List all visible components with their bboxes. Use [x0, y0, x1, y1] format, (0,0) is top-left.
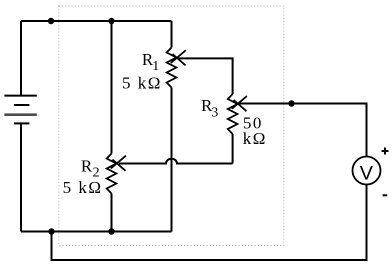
R1 wiper arrow [171, 50, 186, 65]
wire R1 branch top corner [171, 21, 173, 48]
wire R1 wiper to R3 top [178, 58, 233, 94]
svg-text:1: 1 [152, 59, 159, 74]
svg-text:5 kΩ: 5 kΩ [63, 178, 103, 197]
wire R3 bottom stub [232, 134, 234, 164]
wire battery bottom stub [20, 123, 22, 231]
voltmeter V circle [353, 157, 381, 185]
wire R2 branch top [111, 21, 113, 154]
svg-text:kΩ: kΩ [243, 129, 267, 148]
node terminal dot output [288, 100, 294, 106]
svg-text:5 kΩ: 5 kΩ [122, 73, 162, 92]
wire battery top stub [20, 21, 22, 96]
R3 wiper arrow [232, 96, 247, 111]
svg-text:3: 3 [211, 106, 218, 121]
wire bottom bus [21, 231, 172, 233]
voltmeter - polarity mark [383, 194, 388, 196]
node terminal dot bottom-left [48, 228, 54, 234]
node terminal dot top-left [48, 18, 54, 24]
wire R2 branch bottom [111, 194, 113, 232]
R2 wiper arrow [111, 156, 126, 171]
resistor R3 zigzag [228, 94, 238, 134]
wire R2 wiper toward R3 bottom with hop over R1 branch [119, 159, 233, 164]
node junction dot R2 top [108, 18, 114, 24]
wire R1 branch bottom [171, 88, 173, 232]
wire top bus from battery + to R1 top [21, 20, 172, 22]
resistor R2 zigzag [107, 154, 117, 194]
wire return: bottom dot down, right, up to voltmeter bottom [52, 185, 367, 261]
node junction dot R2 bottom [108, 228, 114, 234]
battery B1 plate short bottom [14, 122, 30, 124]
voltmeter + polarity mark [382, 148, 389, 155]
battery B1 plate short [14, 104, 30, 106]
resistor R1 zigzag [167, 48, 177, 88]
svg-text:V: V [360, 163, 374, 185]
svg-text:R: R [81, 156, 93, 175]
wire R3 wiper to voltmeter top [239, 104, 367, 157]
battery B1 plate long lower [4, 113, 36, 116]
dashed enclosure box (potentiometer assembly) [59, 6, 284, 246]
battery B1 plate long top [4, 95, 36, 97]
